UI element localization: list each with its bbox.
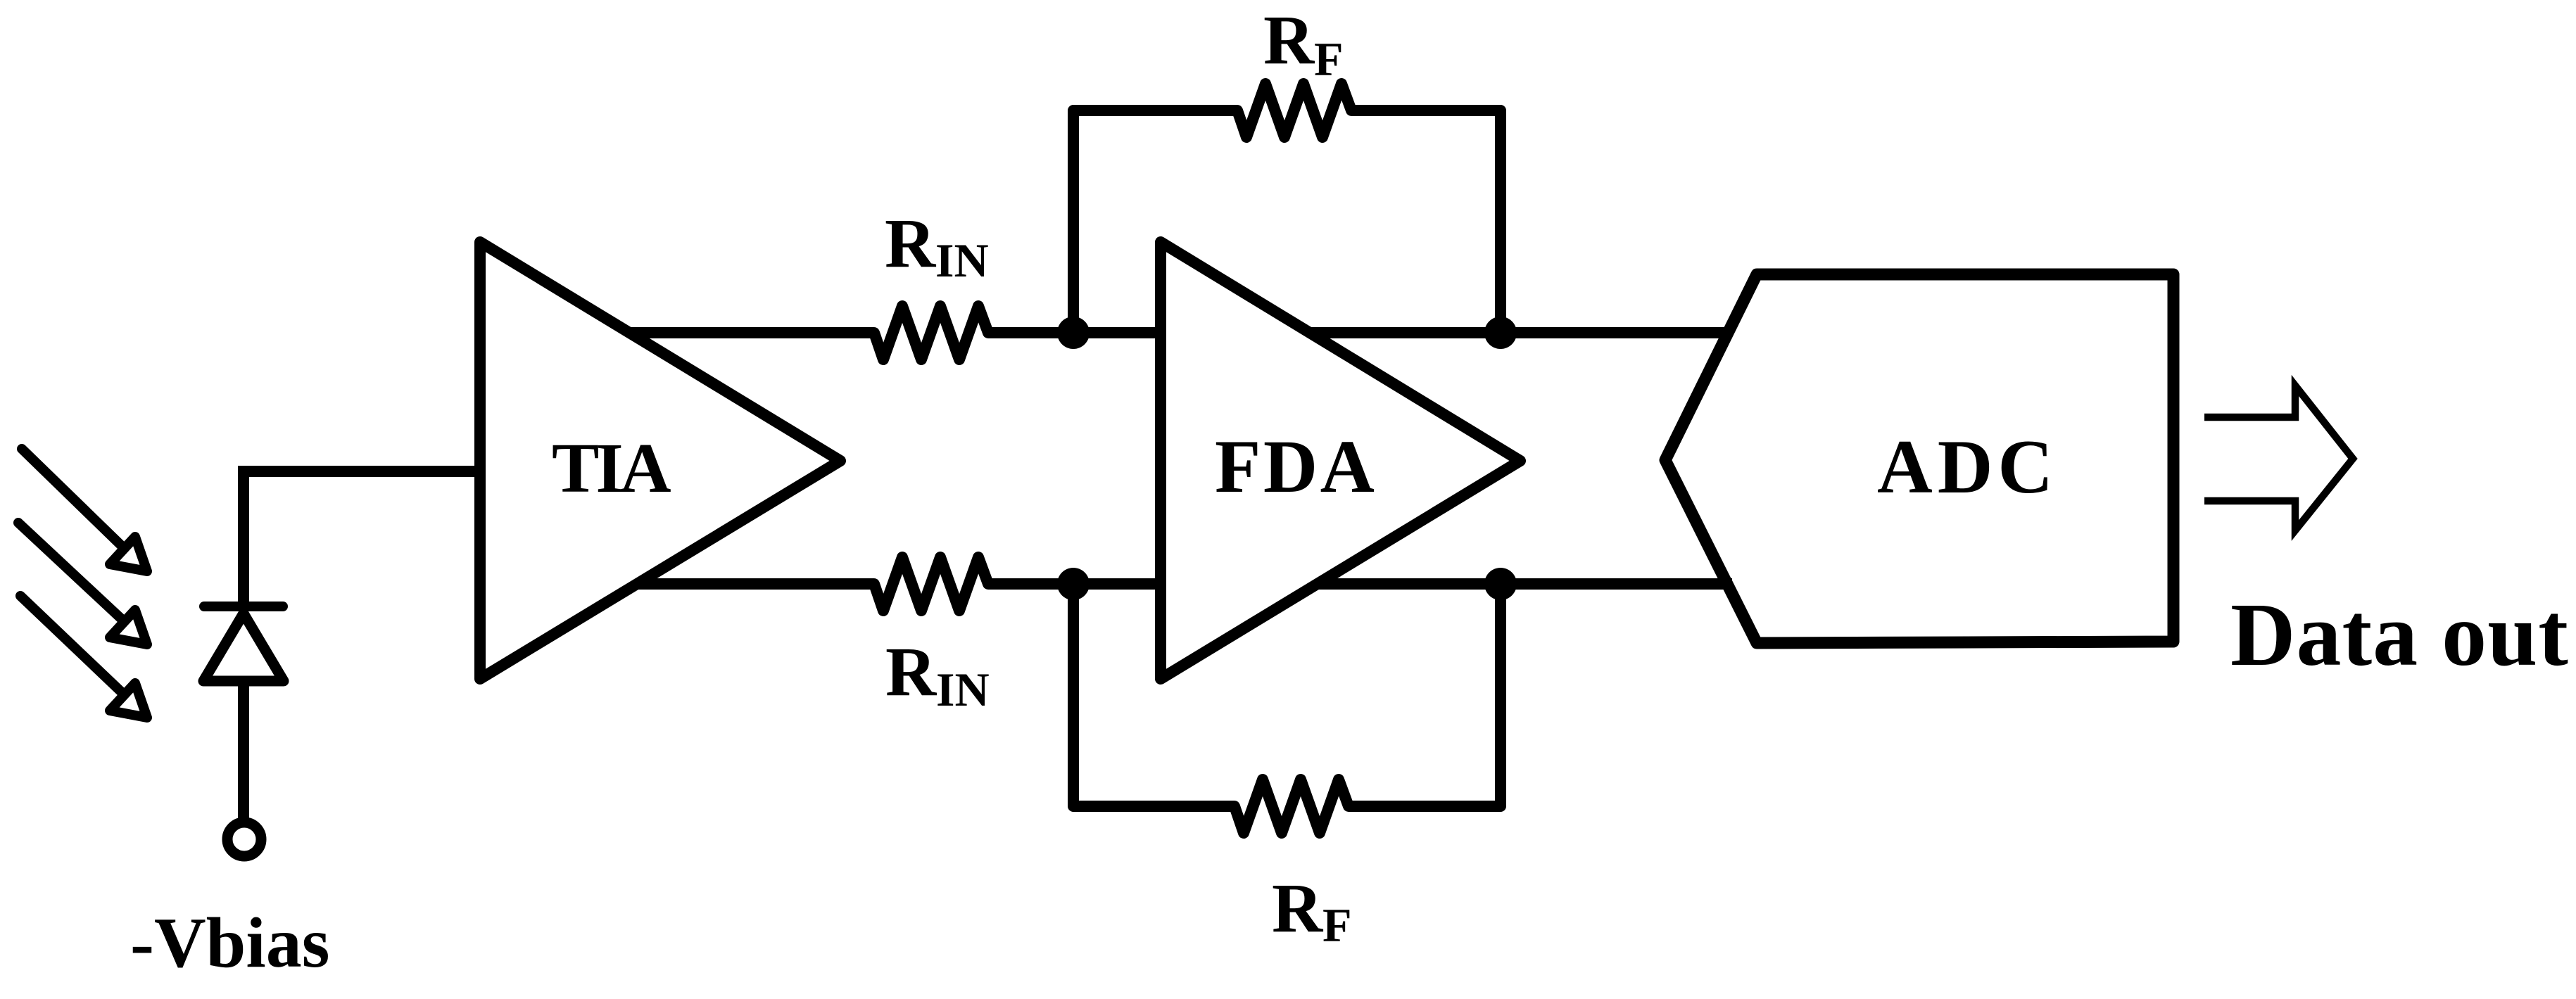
light arrow 1	[22, 449, 147, 571]
svg-text:IN: IN	[936, 663, 990, 716]
svg-text:Data out: Data out	[2230, 585, 2569, 685]
op-amp FDA	[1161, 242, 1520, 679]
op-amp TIA	[480, 242, 840, 679]
output data arrow	[2204, 386, 2353, 530]
svg-text:TIA: TIA	[552, 428, 671, 507]
wire TIA top output through RIN to ADC	[619, 306, 1732, 359]
svg-text:-Vbias: -Vbias	[130, 903, 329, 983]
photodiode D1 anode triangle	[203, 613, 284, 681]
svg-text:IN: IN	[935, 234, 989, 287]
light arrow 3	[20, 596, 147, 718]
svg-text:FDA: FDA	[1215, 426, 1377, 509]
node bottom-left	[1057, 568, 1090, 600]
wire TIA bottom output through RIN to ADC	[619, 557, 1732, 611]
node top-right	[1484, 317, 1517, 349]
terminal -Vbias circle	[227, 822, 261, 856]
svg-text:R: R	[1272, 869, 1324, 947]
ADC block	[1665, 274, 2173, 643]
svg-text:F: F	[1322, 898, 1352, 952]
photodiode D1 cathode bar	[204, 602, 283, 611]
svg-text:R: R	[885, 204, 937, 282]
svg-text:R: R	[885, 632, 937, 711]
wire photodiode to TIA input	[244, 471, 528, 818]
svg-text:F: F	[1314, 32, 1344, 86]
svg-text:ADC: ADC	[1877, 424, 2058, 509]
node bottom-right	[1484, 568, 1517, 600]
light arrow 2	[18, 523, 147, 644]
feedback loop bottom with resistor RF	[1073, 584, 1501, 833]
svg-text:R: R	[1263, 1, 1315, 79]
node top-left	[1057, 317, 1090, 349]
feedback loop top with resistor RF	[1073, 84, 1501, 333]
